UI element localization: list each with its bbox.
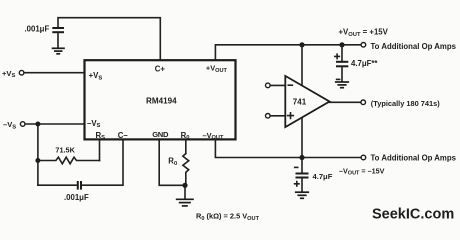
wire: non-inverting input bbox=[270, 115, 285, 117]
wire: -Vout pin to -15V rail bbox=[215, 141, 361, 158]
svg-text:71.5K: 71.5K bbox=[55, 145, 75, 154]
wire: +Vs terminal to +Vs pin bbox=[24, 72, 84, 74]
wire: +15V rail to capacitor C3 bbox=[341, 45, 343, 62]
terminal inverting input (open circle) bbox=[266, 83, 271, 88]
wire: 741 output bbox=[330, 101, 361, 103]
svg-text:4.7μF: 4.7μF bbox=[313, 172, 333, 181]
op-amp U2 741 bbox=[285, 76, 329, 127]
junction dot (R0 / GND node) bbox=[182, 183, 187, 188]
svg-text:SeekIC.com: SeekIC.com bbox=[372, 207, 454, 223]
polarity - (C3) bbox=[337, 78, 340, 80]
svg-text:.001μF: .001μF bbox=[64, 193, 89, 202]
terminal non-inverting input (open circle) bbox=[266, 114, 271, 119]
capacitor C3 4.7uF** (electrolytic, + top) bbox=[336, 62, 348, 81]
capacitor C2 .001uF (Rs to C-) bbox=[78, 181, 81, 190]
polarity + (C4) bbox=[295, 182, 299, 186]
wire: 741 V+ supply bbox=[301, 45, 303, 86]
wire: -15V rail to capacitor C4 bbox=[301, 158, 303, 174]
svg-text:–VOUT = –15V: –VOUT = –15V bbox=[339, 166, 385, 176]
wire: -Vs node down to resistor R1 bbox=[37, 124, 39, 185]
terminal +15V rail (open circle) bbox=[361, 43, 366, 48]
ground (below C1) bbox=[52, 48, 65, 54]
ground (below C3) bbox=[335, 82, 349, 88]
wire: inverting input bbox=[270, 84, 285, 86]
svg-text:GND: GND bbox=[152, 130, 169, 139]
terminal 741 output (open circle) bbox=[361, 100, 366, 105]
ground (below C4) bbox=[295, 192, 309, 198]
terminal +Vs (open circle) bbox=[19, 70, 24, 75]
polarity + (C3) bbox=[335, 54, 339, 58]
wire: R0 pin stub bbox=[185, 141, 187, 154]
svg-text:RM4194: RM4194 bbox=[146, 97, 177, 106]
svg-text:C+: C+ bbox=[155, 65, 166, 74]
wire: GND pin to ground node bbox=[159, 141, 182, 186]
svg-text:.001μF: .001μF bbox=[25, 25, 50, 34]
junction dot (-Vs node) bbox=[35, 122, 40, 127]
wire: capacitor C2 to C- pin bbox=[82, 141, 123, 186]
resistor R0 (vertical) bbox=[183, 154, 189, 186]
wire: -Vs terminal to -Vs pin bbox=[25, 123, 84, 125]
svg-text:+VOUT = +15V: +VOUT = +15V bbox=[339, 28, 389, 38]
plus sign (741 non-inverting) bbox=[288, 113, 294, 119]
svg-text:To Additional Op Amps: To Additional Op Amps bbox=[371, 154, 457, 163]
junction dot (C3 node) bbox=[339, 42, 344, 47]
wire: capacitor C1 top plate to C+ pin of U1 bbox=[58, 18, 160, 60]
wire: +Vout pin up to +15V rail bbox=[215, 45, 361, 60]
svg-text:C–: C– bbox=[118, 131, 129, 140]
wire: Rs pin stub bbox=[99, 141, 101, 161]
svg-text:4.7μF**: 4.7μF** bbox=[351, 59, 378, 68]
resistor R1 71.5K bbox=[38, 157, 100, 164]
wire: -Vs node to capacitor C2 bbox=[38, 184, 77, 186]
wire: 741 V- supply bbox=[301, 118, 303, 158]
junction dot (R1 left) bbox=[35, 158, 40, 163]
IC U1 RM4194 body bbox=[85, 60, 236, 139]
capacitor C4 4.7uF (electrolytic, + bottom) bbox=[296, 174, 309, 192]
terminal -15V rail (open circle) bbox=[361, 155, 366, 160]
ground (below R0) bbox=[176, 185, 194, 206]
terminal -Vs (open circle) bbox=[20, 122, 25, 127]
svg-text:(Typically 180 741s): (Typically 180 741s) bbox=[371, 99, 440, 108]
polarity - (C4) bbox=[295, 166, 298, 168]
capacitor C1 .001uF (bypass, C+) bbox=[52, 28, 64, 48]
minus sign (741 inverting) bbox=[288, 84, 292, 86]
svg-text:To Additional Op Amps: To Additional Op Amps bbox=[371, 42, 457, 51]
junction dot (741 V- / C4 node) bbox=[299, 155, 304, 160]
junction dot (741 V+ supply) bbox=[299, 42, 304, 47]
svg-text:741: 741 bbox=[293, 97, 307, 106]
